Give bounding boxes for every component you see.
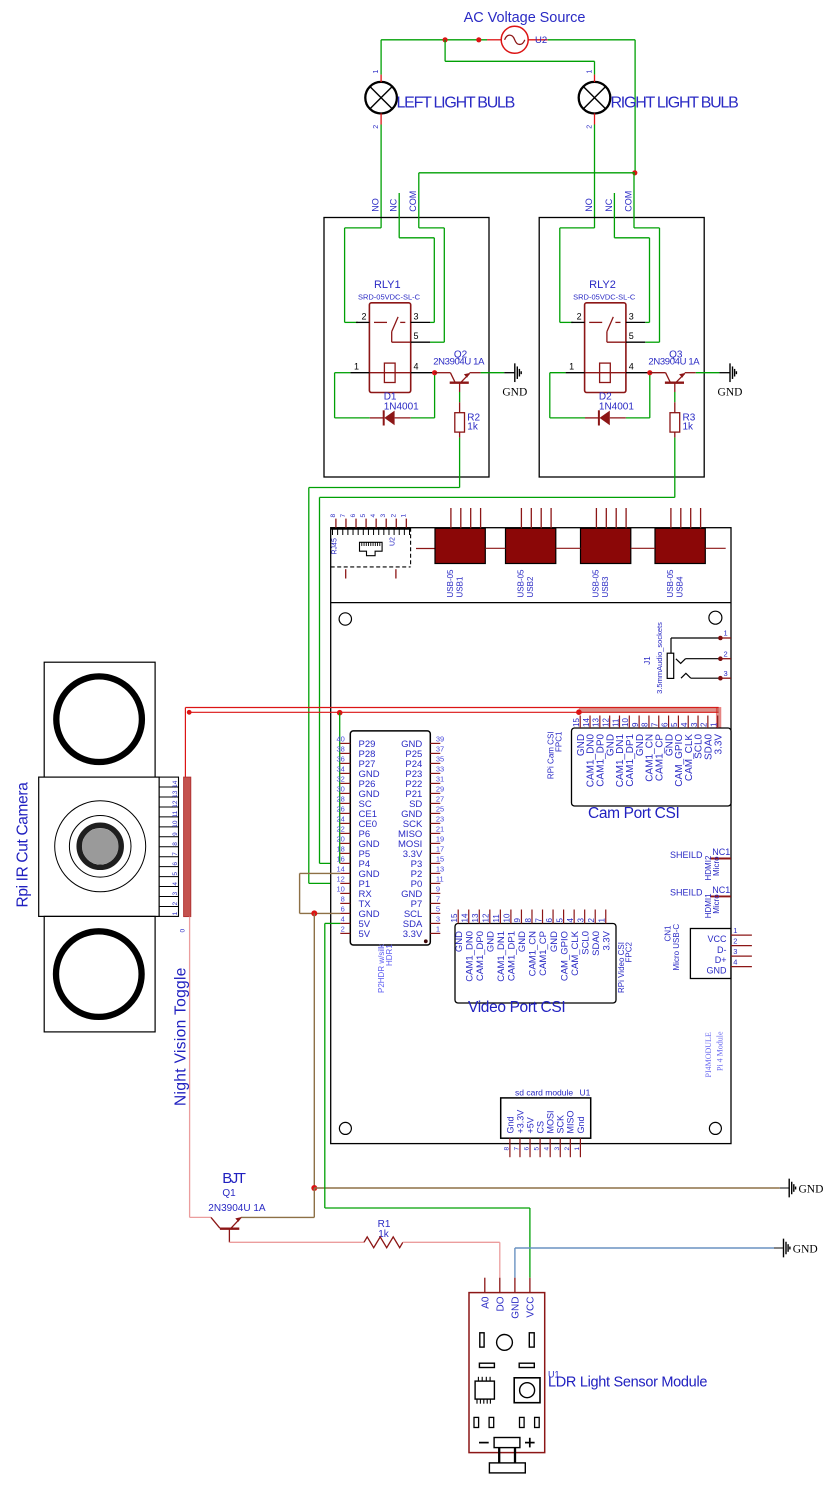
pin 32 of HDR1 (P26) [336, 775, 375, 790]
svg-text:VCC: VCC [707, 934, 727, 944]
wire Q2 emitter to GND [481, 372, 505, 374]
svg-text:4: 4 [566, 918, 575, 923]
pin 9 of HDR1 (GND) [401, 885, 440, 900]
LDR photoresistor element [489, 1438, 525, 1473]
svg-text:Gnd: Gnd [505, 1116, 515, 1133]
svg-text:32: 32 [336, 775, 344, 784]
pin 12 of Video CSI (GND) [482, 910, 497, 953]
LDR light sensor module U1 board outline [469, 1293, 545, 1453]
wire Q3 emitter to GND [696, 372, 720, 374]
pin 5 of Cam CSI (CAM_GPIO) [670, 716, 685, 787]
svg-text:1k: 1k [467, 422, 479, 433]
diode D2 1N4001 [585, 392, 634, 426]
svg-text:2: 2 [577, 311, 582, 321]
svg-text:39: 39 [436, 735, 444, 744]
svg-text:CAM_GPIO: CAM_GPIO [559, 931, 570, 981]
Video Port CSI connector FPC2 [455, 924, 616, 1004]
svg-text:GND: GND [718, 387, 743, 399]
pin 1 marker dot of HDR1 [424, 939, 428, 943]
svg-text:6: 6 [545, 918, 554, 923]
svg-text:SRD-05VDC-SL-C: SRD-05VDC-SL-C [573, 292, 636, 301]
sd card module U1 [501, 1088, 591, 1139]
pin 37 of HDR1 (P25) [405, 745, 444, 760]
pin 3 of RLY2 [626, 311, 645, 322]
ground GND right of Q1 [780, 1179, 824, 1198]
svg-text:1: 1 [569, 362, 574, 372]
pin 3 of HDR1 (SDA) [403, 915, 441, 930]
pin 2 of CN1 (D-) [731, 936, 752, 945]
svg-text:2: 2 [700, 722, 709, 727]
Pi 4 module outline [331, 528, 731, 1144]
pin 35 of HDR1 (P24) [405, 755, 444, 770]
svg-text:2: 2 [341, 925, 345, 934]
wire AC right to COM bus [548, 40, 635, 173]
junction at camera ribbon corner [187, 710, 192, 715]
pin 3 of Cam CSI (SCL0) [690, 716, 705, 759]
svg-text:3: 3 [172, 892, 179, 896]
svg-text:2N3904U 1A: 2N3904U 1A [648, 357, 700, 368]
svg-text:U2: U2 [535, 35, 547, 46]
svg-text:SHEILD: SHEILD [670, 850, 703, 860]
svg-text:6: 6 [172, 862, 179, 866]
svg-text:Micro USB-C: Micro USB-C [672, 924, 681, 971]
svg-text:3: 3 [414, 311, 419, 321]
svg-text:10: 10 [621, 718, 630, 727]
svg-text:12: 12 [336, 875, 344, 884]
wire R3 to header pin 16 [320, 438, 675, 864]
svg-text:2: 2 [733, 936, 737, 945]
svg-text:AC Voltage Source: AC Voltage Source [464, 10, 586, 26]
wire R1 to LDR DO [403, 1242, 500, 1277]
resistor R2 1k [455, 412, 481, 437]
svg-text:14: 14 [461, 913, 470, 922]
pin 40 of HDR1 (P29) [336, 735, 375, 750]
pin 4 of Cam CSI (CAM_CLK) [680, 716, 695, 782]
pin 8 of HDR1 (TX) [340, 895, 371, 910]
svg-text:1: 1 [354, 362, 359, 372]
ground GND near RLY2 [718, 363, 743, 398]
svg-text:2: 2 [390, 514, 397, 518]
wire Q2 base to R2 [459, 383, 461, 413]
wire diode to pin4 junction of RLY1 [411, 373, 435, 418]
svg-text:6: 6 [524, 1147, 531, 1151]
svg-text:1k: 1k [683, 422, 695, 433]
svg-text:19: 19 [436, 835, 444, 844]
svg-text:1: 1 [724, 629, 728, 638]
svg-text:1N4001: 1N4001 [599, 401, 634, 412]
wire COM into RLY2 [634, 173, 660, 342]
pin 15 of Video CSI (GND) [450, 910, 465, 953]
pin 1 of J1 [718, 629, 731, 641]
svg-text:3.3V: 3.3V [601, 930, 612, 950]
svg-text:27: 27 [436, 795, 444, 804]
RJ45 lower stubs [346, 569, 396, 578]
svg-text:31: 31 [436, 775, 444, 784]
svg-text:CAM1_DP0: CAM1_DP0 [475, 931, 486, 981]
svg-text:13: 13 [471, 913, 480, 922]
junction ribbon to header pin 40 drop [337, 710, 343, 716]
pin 12 of Cam CSI (GND) [601, 716, 616, 757]
svg-text:COM: COM [408, 191, 418, 212]
RJ45 connector U2 footprint [331, 528, 411, 567]
junction at AC feed split [443, 37, 448, 42]
pin GND of LDR module [511, 1278, 522, 1319]
pin 11 of HDR1 (P0) [411, 875, 444, 890]
svg-text:20: 20 [336, 835, 344, 844]
svg-text:Q1: Q1 [222, 1188, 236, 1199]
svg-text:CAM1_DP1: CAM1_DP1 [507, 931, 518, 981]
junction ribbon to Cam CSI pin 15 [576, 709, 582, 715]
wire drop to header pin 16 net [339, 713, 341, 864]
header HDR1 P2HDR body [350, 731, 430, 945]
mounting hole top-right [709, 611, 722, 624]
IC on LDR module [475, 1377, 494, 1404]
potentiometer on LDR module [514, 1378, 540, 1403]
svg-text:24: 24 [336, 815, 344, 824]
svg-text:LDR Light Sensor Module: LDR Light Sensor Module [548, 1375, 707, 1391]
junction pin4 of RLY1 [432, 370, 437, 375]
svg-text:2: 2 [587, 125, 594, 129]
resistor R1 1k [364, 1219, 403, 1248]
wire NC stub into RLY1 [399, 193, 434, 322]
pin 17 of HDR1 (3.3V) [403, 845, 444, 860]
svg-text:USB4: USB4 [676, 576, 685, 597]
svg-text:9: 9 [513, 918, 522, 923]
svg-text:4: 4 [341, 915, 345, 924]
svg-text:2: 2 [587, 918, 596, 923]
svg-text:11: 11 [172, 810, 179, 817]
LDR module board components [479, 1333, 534, 1368]
pin 4 of CN1 (GND) [731, 957, 752, 966]
svg-text:1: 1 [733, 926, 737, 935]
HDMI2 Micro port [670, 847, 731, 881]
svg-text:5V: 5V [359, 929, 371, 940]
wire header pin4 5V to LDR VCC [325, 923, 530, 1277]
svg-text:8: 8 [641, 722, 650, 727]
pin 8 of sd card module (Gnd) [503, 1116, 515, 1157]
svg-text:7: 7 [534, 918, 543, 923]
svg-text:9: 9 [172, 832, 179, 836]
svg-text:33: 33 [436, 765, 444, 774]
lamp RIGHT LIGHT BULB [579, 70, 611, 129]
svg-text:13: 13 [436, 865, 444, 874]
USB connector USB1 (USB-05) [435, 508, 485, 598]
svg-text:1: 1 [598, 918, 607, 923]
svg-text:Rpi IR Cut Camera: Rpi IR Cut Camera [15, 782, 32, 908]
svg-text:40: 40 [336, 735, 344, 744]
svg-text:1: 1 [400, 514, 407, 518]
svg-text:12: 12 [601, 718, 610, 727]
pin 14 of HDR1 (GND) [336, 865, 379, 880]
svg-text:USB3: USB3 [601, 576, 610, 597]
pin 3 of RLY1 [411, 311, 430, 322]
wire LDR GND to ground [515, 1248, 774, 1278]
pin VCC of LDR module [526, 1278, 537, 1318]
pin 10 of Video CSI (CAM1_DP1) [503, 910, 518, 982]
junction pin4 of RLY2 [647, 370, 652, 375]
pin 3 of sd card module (SCK) [554, 1115, 566, 1157]
pin DO of LDR module [496, 1278, 507, 1312]
bus drop to Cam CSI pin 1 [716, 708, 720, 728]
camera top IR LED board [44, 662, 155, 777]
svg-text:15: 15 [572, 718, 581, 727]
svg-text:9: 9 [436, 885, 440, 894]
svg-text:CAM1_CN: CAM1_CN [528, 931, 539, 977]
svg-text:15: 15 [450, 913, 459, 922]
pads on LDR module [474, 1417, 539, 1427]
pin 2 of Video CSI (SDA0) [587, 910, 602, 956]
svg-text:23: 23 [436, 815, 444, 824]
svg-text:GND: GND [454, 931, 465, 952]
svg-text:PI4MODULE: PI4MODULE [704, 1032, 713, 1077]
svg-text:GND: GND [799, 1183, 824, 1195]
svg-text:7: 7 [340, 514, 347, 518]
pin 9 of Video CSI (GND) [513, 910, 528, 953]
svg-text:2N3904U 1A: 2N3904U 1A [433, 357, 485, 368]
svg-text:D+: D+ [715, 955, 727, 965]
svg-text:8: 8 [341, 895, 345, 904]
transistor Q1 2N3904U 1A [190, 1188, 266, 1242]
pin 1 of RLY2 [566, 362, 585, 373]
pin 1 of HDR1 (3.3V) [403, 925, 441, 940]
svg-text:2: 2 [373, 125, 380, 129]
pin 2 of Cam CSI (SDA0) [700, 716, 715, 761]
svg-text:GND: GND [517, 931, 528, 952]
wire camera ribbon upper [185, 707, 718, 709]
pin 1 of Cam CSI (3.3V) [709, 716, 724, 755]
svg-text:10: 10 [336, 885, 344, 894]
transistor Q3 2N3904U 1A [648, 350, 700, 383]
svg-text:RJ45: RJ45 [331, 538, 338, 554]
relay block RLY1 outline [324, 218, 489, 478]
svg-text:RLY1: RLY1 [374, 279, 401, 291]
svg-text:22: 22 [336, 825, 344, 834]
svg-text:3.3V: 3.3V [713, 734, 724, 755]
svg-text:5: 5 [414, 331, 419, 341]
svg-text:3: 3 [724, 669, 728, 678]
pin 30 of HDR1 (GND) [336, 785, 379, 800]
svg-text:14: 14 [582, 718, 591, 727]
label PI4MODULE Pi 4 Module [704, 1031, 724, 1078]
camera body with lens [39, 777, 160, 916]
pin A0 of LDR module [481, 1278, 492, 1309]
pin 24 of HDR1 (CE0) [336, 815, 377, 830]
svg-text:7: 7 [172, 852, 179, 856]
svg-text:10: 10 [503, 913, 512, 922]
mounting hole bottom-left [339, 1122, 351, 1134]
svg-text:3: 3 [436, 915, 440, 924]
svg-text:7: 7 [436, 895, 440, 904]
svg-text:GND: GND [707, 965, 728, 975]
svg-text:4: 4 [544, 1147, 551, 1151]
svg-text:1: 1 [436, 925, 440, 934]
pin 1 of sd card module (Gnd) [574, 1116, 586, 1157]
label RPi Cam CSI FPC1 [547, 731, 564, 779]
svg-text:8: 8 [172, 842, 179, 846]
svg-text:14: 14 [172, 780, 179, 788]
svg-text:29: 29 [436, 785, 444, 794]
svg-text:USB1: USB1 [456, 576, 465, 597]
pin 25 of HDR1 (GND) [401, 805, 444, 820]
pin 4 of HDR1 (5V) [340, 915, 370, 930]
relay RLY2 SRD-05VDC-SL-C [573, 279, 636, 393]
pin 13 of HDR1 (P2) [411, 865, 445, 880]
polarity marks on LDR module [479, 1438, 535, 1448]
svg-text:2: 2 [172, 901, 179, 905]
Cam Port CSI connector FPC1 [572, 728, 732, 806]
lamp LEFT LIGHT BULB [365, 70, 397, 129]
svg-text:COM: COM [623, 191, 633, 212]
wire COM bus to relay1 [419, 172, 635, 174]
svg-text:8: 8 [524, 918, 533, 923]
pin 3 of Video CSI (SCL0) [576, 910, 591, 955]
ground GND near RLY1 [502, 363, 527, 398]
pin 2 of RLY2 [571, 311, 584, 322]
svg-text:21: 21 [436, 825, 444, 834]
diode D1 1N4001 [370, 392, 419, 426]
svg-text:35: 35 [436, 755, 444, 764]
pin 5 of RLY1 [411, 331, 430, 342]
svg-text:5: 5 [436, 905, 440, 914]
wire NO loop inside RLY1 [345, 228, 382, 323]
pin 6 of Cam CSI (GND) [660, 716, 675, 757]
wire camera ribbon vertical [184, 708, 186, 778]
wire segments between USB blocks [485, 547, 725, 549]
USB connector USB2 (USB-05) [506, 508, 556, 598]
svg-text:13: 13 [172, 790, 179, 798]
svg-text:NO: NO [371, 198, 381, 212]
svg-text:3.3V: 3.3V [403, 929, 423, 940]
svg-text:NC1: NC1 [712, 847, 730, 857]
wire camera ribbon lower [189, 711, 718, 713]
junction near AC source left pin [476, 37, 481, 42]
pin 13 of Video CSI (CAM1_DP0) [471, 910, 486, 982]
wire AC left to left bulb [381, 40, 487, 75]
pin 4 of sd card module (MOSI) [544, 1110, 556, 1157]
wire GND net down [313, 913, 315, 1188]
svg-text:9: 9 [631, 722, 640, 727]
pin 18 of HDR1 (P5) [336, 845, 370, 860]
svg-text:30: 30 [336, 785, 344, 794]
pin 2 of HDR1 (5V) [340, 925, 370, 940]
svg-text:37: 37 [436, 745, 444, 754]
label RPi Video CSI FPC2 [617, 941, 634, 993]
pin 34 of HDR1 (GND) [336, 765, 379, 780]
svg-text:GND: GND [486, 931, 497, 952]
svg-text:1: 1 [587, 70, 594, 74]
resistor R3 1k [670, 412, 696, 437]
pin 12 of HDR1 (P1) [336, 875, 370, 890]
wire AC to right bulb [445, 40, 594, 75]
wire RJ45 to USB1 [416, 548, 435, 550]
svg-text:7: 7 [513, 1147, 520, 1151]
svg-text:3: 3 [690, 722, 699, 727]
svg-text:7: 7 [651, 722, 660, 727]
svg-text:25: 25 [436, 805, 444, 814]
pin 16 of HDR1 (P4) [336, 855, 370, 870]
relay RLY1 SRD-05VDC-SL-C [358, 279, 421, 393]
pin 6 of sd card module (+5V) [524, 1117, 536, 1157]
ground GND near LDR [774, 1239, 818, 1258]
svg-text:USB-05: USB-05 [517, 569, 526, 598]
HDMI1 Micro port [670, 885, 731, 918]
svg-text:RLY2: RLY2 [589, 279, 616, 291]
svg-text:4: 4 [172, 882, 179, 886]
pin 9 of Cam CSI (GND) [631, 716, 646, 757]
pin 7 of Cam CSI (CAM1_CP) [651, 716, 666, 782]
svg-text:5: 5 [360, 514, 367, 518]
svg-text:17: 17 [436, 845, 444, 854]
svg-text:CAM_CLK: CAM_CLK [570, 930, 581, 976]
svg-text:1: 1 [373, 70, 380, 74]
wire right bulb to relay2 NO [594, 125, 596, 228]
svg-text:4: 4 [733, 957, 737, 966]
pin 5 of sd card module (CS) [534, 1121, 546, 1157]
svg-text:CAM1_DN1: CAM1_DN1 [496, 931, 507, 982]
svg-text:NC: NC [389, 198, 399, 211]
svg-text:A0: A0 [481, 1296, 492, 1309]
audio jack J1 3.5mmAudio_sockets [643, 622, 720, 694]
pin 2 of RLY1 [356, 311, 369, 322]
pin 6 of Video CSI (GND) [545, 910, 560, 953]
label U1 LDR Light Sensor Module [548, 1369, 707, 1390]
svg-text:D-: D- [717, 945, 727, 955]
svg-text:3.5mmAudio_sockets: 3.5mmAudio_sockets [655, 622, 664, 694]
wire coil loop left of RLY2 [550, 373, 585, 418]
camera bottom IR LED board [44, 916, 155, 1032]
svg-text:13: 13 [592, 718, 601, 727]
wire Q1 base to R1 [229, 1241, 364, 1243]
pin 7 of sd card module (+3.3V) [513, 1110, 525, 1157]
pin 13 of Cam CSI (CAM1_DP0) [592, 716, 607, 787]
svg-text:SCL0: SCL0 [580, 931, 591, 955]
svg-text:sd card module: sd card module [515, 1088, 573, 1098]
svg-text:8: 8 [503, 1147, 510, 1151]
junction GND net bottom [311, 1185, 317, 1191]
pin 38 of HDR1 (P28) [336, 745, 375, 760]
svg-text:Pi 4 Module: Pi 4 Module [715, 1031, 724, 1071]
pin 7 of Video CSI (CAM1_CP) [534, 910, 549, 976]
svg-text:Gnd: Gnd [576, 1116, 586, 1133]
pin 3 of J1 [718, 669, 731, 681]
svg-text:SHEILD: SHEILD [670, 888, 703, 898]
svg-text:4: 4 [680, 722, 689, 727]
svg-text:USB2: USB2 [526, 576, 535, 597]
svg-text:SRD-05VDC-SL-C: SRD-05VDC-SL-C [358, 292, 421, 301]
svg-text:14: 14 [336, 865, 344, 874]
svg-text:6: 6 [341, 905, 345, 914]
pin 4 of Video CSI (CAM_CLK) [566, 910, 581, 976]
svg-text:GND: GND [793, 1244, 818, 1256]
svg-text:12: 12 [172, 800, 179, 808]
svg-text:11: 11 [492, 914, 501, 923]
svg-text:NC: NC [604, 198, 614, 211]
svg-text:VCC: VCC [526, 1297, 537, 1318]
svg-text:11: 11 [611, 718, 620, 727]
svg-text:+3.3V: +3.3V [515, 1110, 525, 1134]
svg-text:HDR1: HDR1 [385, 944, 394, 966]
svg-text:Cam Port CSI: Cam Port CSI [588, 805, 679, 822]
bus fill camera ribbon [579, 708, 719, 713]
svg-text:6: 6 [660, 722, 669, 727]
pin 14 of Video CSI (CAM1_DN0) [461, 910, 476, 982]
pin 36 of HDR1 (P27) [336, 755, 375, 770]
pin 5 of RLY2 [626, 331, 645, 342]
mounting hole top-left [339, 613, 351, 625]
svg-text:USB-05: USB-05 [446, 569, 455, 598]
pin 15 of Cam CSI (GND) [572, 716, 587, 757]
svg-text:Night Vision Toggle: Night Vision Toggle [173, 967, 190, 1106]
